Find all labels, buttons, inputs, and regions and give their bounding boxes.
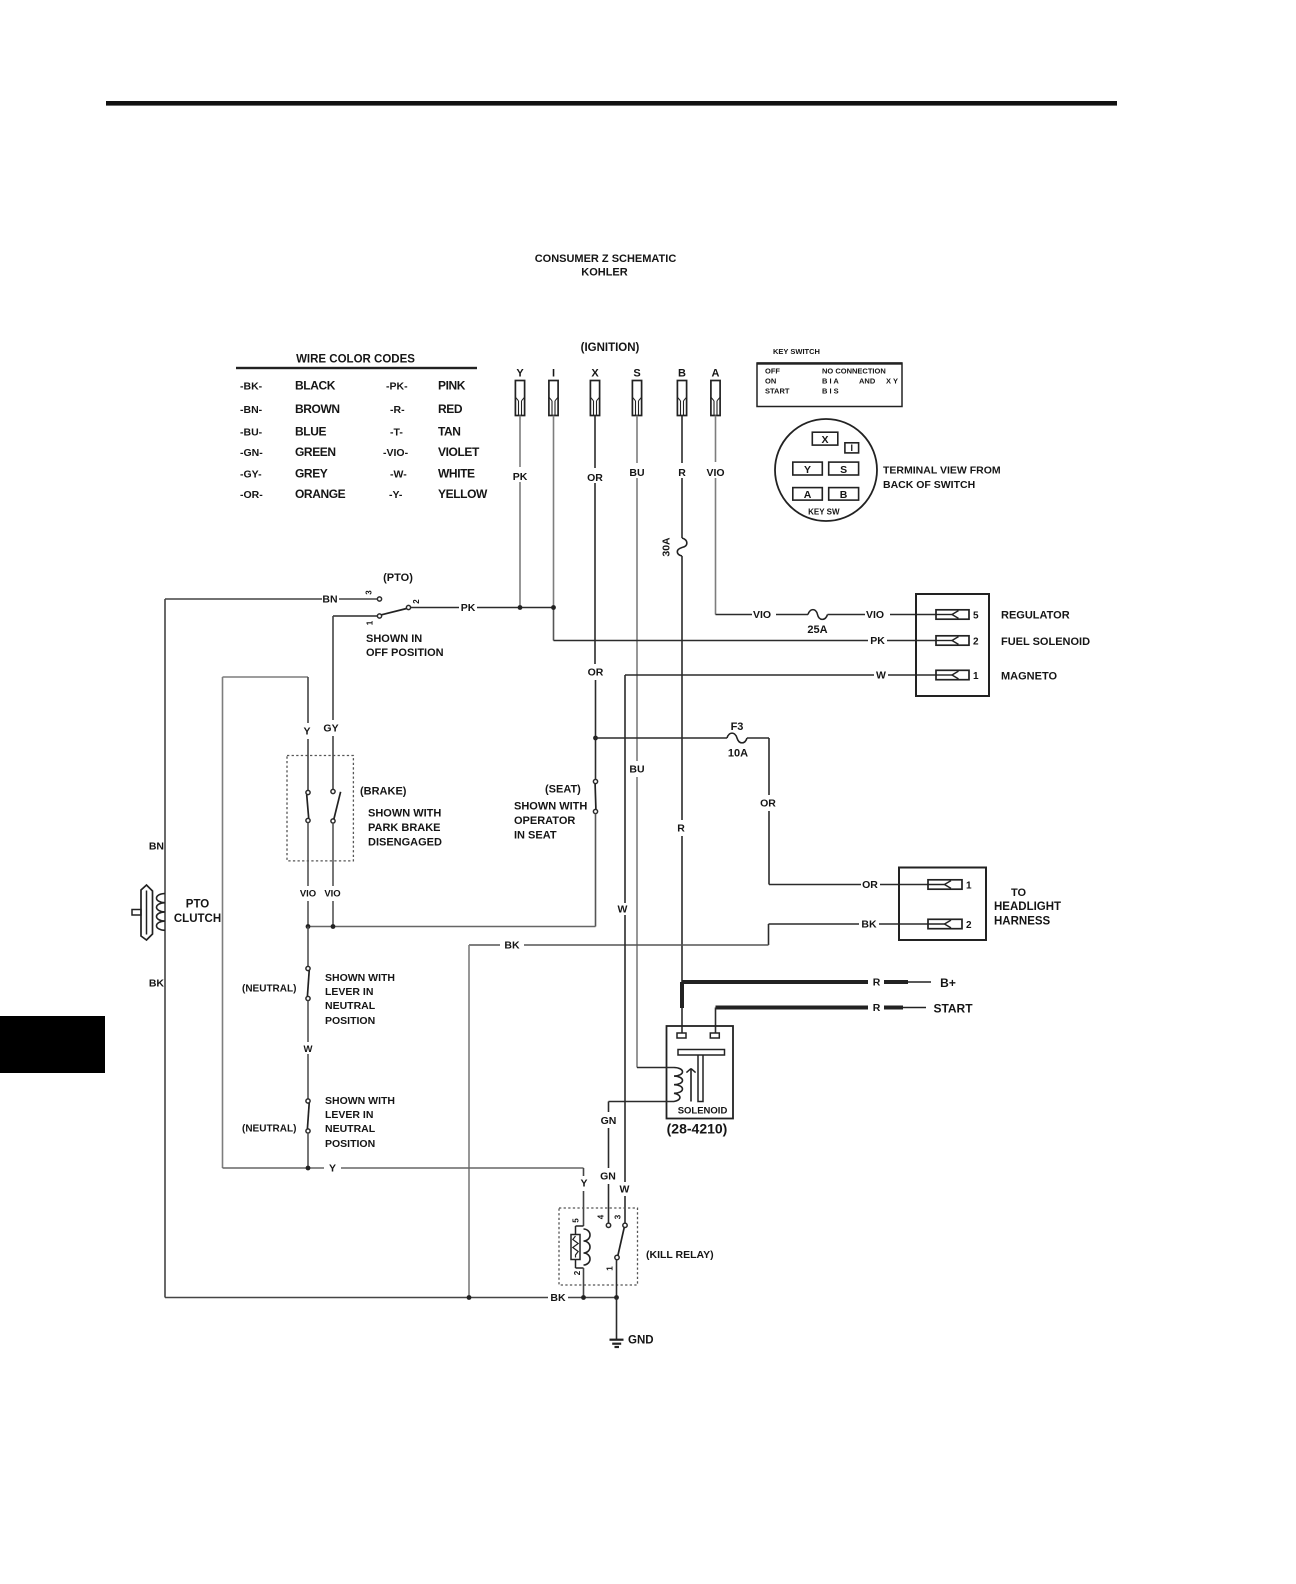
wire relay sw to BK: [616, 1260, 618, 1298]
wire S-BU vertical: [636, 416, 638, 464]
wire VIO right vertical: [332, 823, 334, 886]
svg-text:GREY: GREY: [295, 467, 328, 481]
brake dashed box: [287, 756, 353, 861]
kill relay terminal 3: [623, 1223, 627, 1227]
PTO switch terminal 3: [377, 597, 381, 601]
svg-text:-R-: -R-: [390, 404, 405, 416]
key switch terminal A: [793, 488, 823, 501]
svg-text:BK: BK: [861, 919, 877, 931]
solenoid T bar: [678, 1050, 725, 1056]
svg-text:POSITION: POSITION: [325, 1138, 375, 1150]
svg-text:F3: F3: [731, 721, 744, 733]
wire B-R vertical: [681, 416, 683, 464]
fuse 30A: [677, 538, 687, 556]
svg-text:PINK: PINK: [438, 379, 466, 393]
svg-text:B: B: [678, 368, 686, 380]
svg-text:PK: PK: [461, 602, 476, 614]
svg-text:POSITION: POSITION: [325, 1015, 375, 1027]
svg-text:VIOLET: VIOLET: [438, 445, 480, 459]
wire START thick: [716, 1006, 869, 1010]
svg-text:GREEN: GREEN: [295, 445, 336, 459]
svg-text:B+: B+: [940, 976, 956, 990]
svg-text:-PK-: -PK-: [386, 381, 408, 393]
PTO switch blade: [381, 609, 406, 615]
neutral switch 2 term bottom: [306, 1129, 310, 1133]
brake switch left term bottom: [306, 818, 310, 822]
svg-text:-BN-: -BN-: [240, 404, 263, 416]
svg-text:-VIO-: -VIO-: [383, 447, 409, 459]
svg-text:ON: ON: [765, 377, 776, 386]
svg-text:REGULATOR: REGULATOR: [1001, 610, 1070, 622]
wire GN from coil: [609, 1101, 675, 1103]
svg-text:BN: BN: [322, 594, 337, 606]
wire BU to coil: [637, 1067, 674, 1069]
node neutral-Y junction: [306, 1166, 311, 1171]
node BK-coil junction: [581, 1295, 586, 1300]
svg-text:(KILL RELAY): (KILL RELAY): [646, 1249, 714, 1261]
regulator pin 1 spade: [936, 670, 969, 679]
kill relay terminal 1: [615, 1255, 619, 1259]
headlight pin 1 spade: [928, 880, 962, 889]
svg-text:TAN: TAN: [438, 425, 461, 439]
wire relay coil to BK: [583, 1268, 585, 1298]
svg-text:B: B: [840, 489, 848, 501]
seat switch term bottom: [593, 809, 597, 813]
svg-text:3: 3: [614, 1214, 623, 1219]
svg-text:(28-4210): (28-4210): [667, 1121, 728, 1137]
svg-text:NEUTRAL: NEUTRAL: [325, 1000, 376, 1012]
brake switch left blade: [307, 795, 309, 819]
svg-text:W: W: [304, 1044, 313, 1055]
svg-text:X: X: [821, 434, 828, 446]
kill relay resistor branch top: [576, 1225, 584, 1227]
wire OR down: [768, 738, 770, 795]
svg-text:SHOWN WITH: SHOWN WITH: [368, 808, 441, 820]
node BK-switch junction: [614, 1295, 619, 1300]
svg-text:(SEAT): (SEAT): [545, 784, 581, 796]
svg-text:(PTO): (PTO): [383, 572, 413, 584]
wire VIO to regulator: [716, 614, 753, 616]
svg-text:Y: Y: [580, 1178, 587, 1190]
svg-text:OR: OR: [760, 798, 776, 810]
key switch terminal view circle: [775, 419, 877, 521]
svg-text:VIO: VIO: [300, 889, 316, 900]
svg-text:(IGNITION): (IGNITION): [581, 342, 640, 354]
svg-text:A: A: [712, 368, 720, 380]
wire A-VIO vertical: [715, 416, 717, 463]
svg-text:2: 2: [412, 599, 421, 604]
svg-text:X Y: X Y: [886, 377, 898, 386]
brake switch left term top: [306, 790, 310, 794]
solenoid coil: [674, 1068, 683, 1102]
svg-text:BU: BU: [629, 764, 644, 776]
svg-text:SHOWN WITH: SHOWN WITH: [325, 1095, 395, 1107]
svg-text:X: X: [591, 368, 599, 380]
svg-text:-GY-: -GY-: [240, 469, 262, 481]
brake switch right blade: [334, 792, 341, 819]
PTO clutch core: [141, 885, 153, 940]
wire Y bottom horizontal: [223, 1167, 325, 1169]
wire OR to F3: [596, 737, 728, 739]
svg-text:PK: PK: [513, 471, 528, 483]
ground: [610, 1339, 624, 1341]
svg-text:OFF: OFF: [765, 367, 780, 376]
svg-text:5: 5: [973, 610, 979, 621]
key switch terminal X: [812, 432, 838, 445]
svg-text:-BU-: -BU-: [240, 427, 263, 439]
wire BN horizontal: [165, 598, 322, 600]
wire Y-PK vertical: [519, 416, 521, 468]
svg-text:PTO: PTO: [186, 899, 209, 911]
wire X-OR vertical: [594, 416, 596, 469]
svg-text:R: R: [678, 467, 686, 479]
svg-text:(BRAKE): (BRAKE): [360, 786, 407, 798]
kill relay blade: [618, 1228, 624, 1256]
svg-text:SHOWN IN: SHOWN IN: [366, 633, 422, 645]
svg-text:RED: RED: [438, 402, 463, 416]
neutral switch 1 term top: [306, 966, 310, 970]
key switch terminal B: [829, 488, 859, 501]
node VIO right: [331, 924, 336, 929]
svg-text:5: 5: [572, 1218, 581, 1223]
kill relay resistor: [571, 1235, 580, 1260]
seat switch blade: [594, 784, 597, 810]
svg-text:B I S: B I S: [822, 387, 839, 396]
svg-text:BROWN: BROWN: [295, 402, 340, 416]
svg-text:S: S: [633, 368, 640, 380]
svg-text:KEY SWITCH: KEY SWITCH: [773, 347, 820, 356]
svg-text:R: R: [677, 823, 685, 835]
kill relay terminal 4: [606, 1223, 610, 1227]
svg-text:Y: Y: [329, 1163, 336, 1175]
svg-text:W: W: [876, 670, 886, 682]
svg-text:I: I: [552, 368, 555, 380]
wire OR to headlight: [769, 884, 861, 886]
svg-text:-GN-: -GN-: [240, 447, 263, 459]
wire VIO horizontal: [308, 926, 596, 928]
svg-text:VIO: VIO: [753, 609, 771, 621]
neutral switch 1 term bottom: [306, 996, 310, 1000]
wire neutral bottom: [307, 1133, 309, 1168]
svg-text:-OR-: -OR-: [240, 489, 263, 501]
svg-text:BU: BU: [629, 467, 644, 479]
svg-text:2: 2: [573, 1270, 582, 1275]
svg-text:OR: OR: [587, 472, 603, 484]
wire PTO t1 to GY: [333, 615, 377, 617]
svg-text:GN: GN: [601, 1115, 617, 1127]
wire PK to fuel solenoid: [553, 608, 555, 641]
svg-text:30A: 30A: [661, 537, 673, 557]
svg-text:AND: AND: [859, 377, 876, 386]
svg-text:BLACK: BLACK: [295, 379, 336, 393]
solenoid terminal 1: [677, 1033, 686, 1038]
svg-text:-Y-: -Y-: [389, 489, 403, 501]
svg-text:BK: BK: [504, 940, 520, 952]
PTO clutch coil: [157, 894, 166, 931]
svg-text:START: START: [765, 387, 790, 396]
node OR junction: [593, 736, 598, 741]
seat switch term top: [593, 779, 597, 783]
svg-text:-BK-: -BK-: [240, 381, 263, 393]
svg-text:CONSUMER Z SCHEMATIC: CONSUMER Z SCHEMATIC: [535, 253, 677, 265]
solenoid box: [667, 1026, 734, 1119]
svg-text:(NEUTRAL): (NEUTRAL): [242, 1124, 296, 1135]
svg-text:BACK OF SWITCH: BACK OF SWITCH: [883, 479, 975, 491]
node PK-Y junction: [518, 605, 523, 610]
regulator connector box: [916, 594, 989, 696]
svg-text:WIRE COLOR CODES: WIRE COLOR CODES: [296, 354, 415, 366]
svg-text:IN SEAT: IN SEAT: [514, 830, 557, 842]
svg-text:4: 4: [597, 1214, 606, 1219]
svg-text:1: 1: [973, 671, 979, 682]
svg-text:OFF POSITION: OFF POSITION: [366, 647, 444, 659]
key switch table box: [757, 363, 902, 407]
svg-text:BLUE: BLUE: [295, 425, 326, 439]
wire START to solenoid term2: [715, 1008, 717, 1034]
svg-text:I: I: [850, 443, 853, 453]
svg-text:GND: GND: [628, 1335, 654, 1347]
wire to GND: [616, 1298, 618, 1340]
svg-text:TO: TO: [1011, 887, 1027, 899]
svg-text:ORANGE: ORANGE: [295, 487, 346, 501]
svg-text:GY: GY: [323, 723, 338, 735]
svg-text:BK: BK: [149, 978, 165, 990]
wire grey U vertical: [222, 677, 224, 1168]
kill relay dashed box: [559, 1208, 638, 1285]
svg-text:SHOWN WITH: SHOWN WITH: [514, 801, 587, 813]
PTO switch terminal 1: [377, 614, 381, 618]
svg-text:OR: OR: [588, 667, 604, 679]
wire BK to headlight: [769, 923, 860, 925]
svg-text:FUEL SOLENOID: FUEL SOLENOID: [1001, 636, 1090, 648]
solenoid terminal 2: [710, 1033, 719, 1038]
svg-text:LEVER IN: LEVER IN: [325, 1109, 373, 1121]
svg-text:2: 2: [973, 636, 979, 647]
svg-text:YELLOW: YELLOW: [438, 487, 488, 501]
svg-text:Y: Y: [804, 464, 811, 476]
wire BK jog: [768, 924, 770, 945]
svg-text:HARNESS: HARNESS: [994, 916, 1051, 928]
svg-text:BK: BK: [550, 1292, 566, 1304]
fuse 25A: [808, 610, 828, 620]
svg-text:NEUTRAL: NEUTRAL: [325, 1123, 376, 1135]
wire W to magneto: [625, 674, 874, 676]
node BK-headlight junction: [467, 1295, 472, 1300]
neutral switch 2 blade: [307, 1103, 309, 1129]
PTO switch terminal 2: [406, 605, 410, 609]
svg-text:WHITE: WHITE: [438, 467, 475, 481]
svg-text:OR: OR: [862, 879, 878, 891]
wire neutral top: [307, 927, 309, 967]
svg-text:SHOWN WITH: SHOWN WITH: [325, 972, 395, 984]
headlight pin 2 spade: [928, 919, 962, 928]
svg-text:CLUTCH: CLUTCH: [174, 913, 221, 925]
svg-text:R: R: [873, 977, 881, 989]
svg-text:R: R: [873, 1002, 881, 1014]
svg-text:3: 3: [365, 590, 374, 595]
regulator pin 2 spade: [936, 636, 969, 645]
svg-text:S: S: [840, 464, 847, 476]
wire B+ thick: [682, 980, 868, 984]
wire Y top horizontal: [223, 676, 309, 678]
wire BN/BK left vertical: [164, 599, 166, 1298]
wire neutral mid: [307, 1001, 309, 1042]
neutral switch 1 blade: [307, 971, 309, 997]
svg-text:DISENGAGED: DISENGAGED: [368, 837, 442, 849]
wire Y to kill relay: [583, 1168, 585, 1176]
svg-text:START: START: [933, 1002, 973, 1016]
svg-text:VIO: VIO: [706, 467, 724, 479]
svg-text:OPERATOR: OPERATOR: [514, 815, 575, 827]
svg-text:BN: BN: [149, 841, 164, 853]
wire BK down vertical: [468, 945, 470, 1298]
svg-text:Y: Y: [516, 368, 524, 380]
svg-text:TERMINAL VIEW FROM: TERMINAL VIEW FROM: [883, 465, 1001, 477]
wire BK horizontal: [469, 944, 500, 946]
brake switch right term bottom: [331, 819, 335, 823]
solenoid arrow: [690, 1070, 692, 1102]
wire R to solenoid term1: [680, 982, 684, 1008]
regulator pin 5 spade: [936, 610, 969, 619]
black sidebar block: [0, 1016, 105, 1073]
svg-text:PK: PK: [870, 635, 885, 647]
node PK-I junction: [551, 605, 556, 610]
svg-text:HEADLIGHT: HEADLIGHT: [994, 901, 1061, 913]
svg-text:VIO: VIO: [866, 609, 884, 621]
svg-text:1: 1: [966, 880, 972, 891]
kill relay coil: [584, 1229, 591, 1265]
svg-text:MAGNETO: MAGNETO: [1001, 671, 1057, 683]
key switch terminal Y: [793, 462, 823, 475]
svg-text:GN: GN: [600, 1171, 616, 1183]
svg-text:KEY SW: KEY SW: [808, 508, 840, 517]
page rule: [106, 101, 1117, 106]
neutral switch 2 term top: [306, 1099, 310, 1103]
solenoid T stem: [698, 1055, 703, 1102]
wire Y brake vertical: [307, 677, 309, 723]
svg-text:-T-: -T-: [390, 427, 403, 439]
svg-text:LEVER IN: LEVER IN: [325, 986, 373, 998]
key switch terminal S: [829, 462, 859, 475]
fuse F3 10A: [727, 733, 747, 743]
svg-text:1: 1: [366, 620, 375, 625]
key switch terminal I: [845, 443, 859, 453]
wire VIO left vertical: [307, 823, 309, 886]
svg-text:VIO: VIO: [324, 889, 340, 900]
headlight connector box: [899, 868, 986, 941]
svg-text:2: 2: [966, 920, 972, 931]
wire GY vertical: [332, 616, 334, 720]
svg-text:SOLENOID: SOLENOID: [678, 1106, 728, 1117]
svg-text:PARK BRAKE: PARK BRAKE: [368, 822, 441, 834]
svg-text:W: W: [620, 1184, 630, 1196]
wire GN vertical: [608, 1102, 610, 1113]
wire PK from PTO: [411, 607, 459, 609]
svg-text:Y: Y: [303, 726, 310, 738]
wire BK bottom horizontal: [165, 1297, 548, 1299]
wire W vertical: [624, 675, 626, 903]
svg-text:-W-: -W-: [390, 469, 407, 481]
wire seat to VIO: [595, 814, 597, 927]
svg-text:(NEUTRAL): (NEUTRAL): [242, 984, 296, 995]
kill relay resistor branch bottom: [575, 1260, 577, 1269]
node VIO left: [306, 924, 311, 929]
brake switch right term top: [331, 789, 335, 793]
svg-text:1: 1: [606, 1266, 615, 1271]
svg-text:NO CONNECTION: NO CONNECTION: [822, 367, 886, 376]
wire I vertical: [553, 416, 555, 608]
svg-text:B I A: B I A: [822, 377, 839, 386]
svg-text:A: A: [804, 489, 812, 501]
svg-text:25A: 25A: [807, 624, 827, 636]
svg-text:W: W: [618, 904, 628, 916]
svg-text:KOHLER: KOHLER: [581, 267, 628, 279]
svg-text:10A: 10A: [728, 748, 748, 760]
PTO clutch stub: [132, 910, 141, 916]
